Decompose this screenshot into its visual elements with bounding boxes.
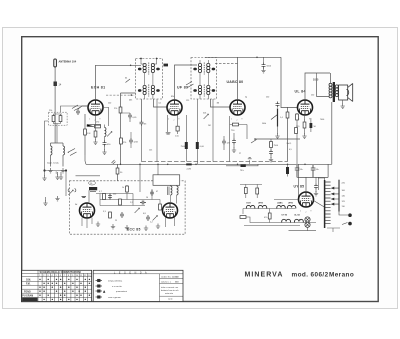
svg-text:0,5: 0,5 <box>289 149 292 151</box>
IFT2 secondary winding bottom <box>207 85 210 94</box>
svg-text:1: 1 <box>299 119 300 121</box>
IF transformer box IFT1 (dashed) <box>136 59 163 100</box>
svg-text:Merano: Merano <box>329 272 354 279</box>
ground under L1 <box>48 168 52 173</box>
ratio secondary coil <box>177 186 179 195</box>
resistor R23 <box>159 204 162 210</box>
svg-text:125: 125 <box>149 150 152 152</box>
svg-text:9: 9 <box>179 119 180 121</box>
grid leak drop <box>84 114 86 155</box>
screen wire <box>316 73 318 81</box>
svg-text:lungh. f.onda: lungh. f.onda <box>47 163 59 165</box>
screen resistor R5b <box>120 138 127 144</box>
svg-text:47: 47 <box>156 191 158 193</box>
tube ECH81 <box>88 100 103 115</box>
IFT1 core top <box>148 63 150 75</box>
FM triode b bottom wires <box>166 218 175 228</box>
rail switch contact marks <box>112 160 116 164</box>
ladder top wire <box>318 178 324 180</box>
audio drop blob <box>286 164 289 176</box>
svg-text:PU GRAM: PU GRAM <box>22 295 33 298</box>
wire to UL84 grid <box>281 57 297 107</box>
svg-text:1: 1 <box>89 119 90 121</box>
selector arrows <box>331 187 338 205</box>
bottom power wire 1 <box>244 225 300 227</box>
oscillator coil L3 <box>105 125 107 142</box>
IFT1 primary winding top <box>143 63 146 72</box>
svg-text:27: 27 <box>239 153 241 155</box>
heater filament pair 4 <box>287 205 295 208</box>
svg-text:o a cont.to: o a cont.to <box>112 285 123 288</box>
capacitor C34 <box>120 212 124 218</box>
ECH81 plate wire to IFT1 <box>96 65 142 100</box>
UL84 plate wire to OT <box>305 73 330 100</box>
output transformer secondary <box>335 85 338 97</box>
audio line y139 <box>255 138 300 140</box>
svg-text:50k: 50k <box>203 113 206 115</box>
svg-text:UY 85: UY 85 <box>282 215 288 217</box>
B plus drop from OT <box>331 102 333 164</box>
svg-text:25: 25 <box>115 220 117 222</box>
ground g4 <box>144 226 148 231</box>
FM input coupling line <box>76 175 101 177</box>
cathode line under ECH81 <box>87 124 101 126</box>
AGC drop x157 <box>156 99 158 162</box>
capacitor C32 <box>150 190 154 196</box>
antenna filter dashed box <box>48 112 67 125</box>
ground FM input <box>55 196 59 201</box>
FM trimmer T1 <box>68 190 73 195</box>
FM triode a bottom wires <box>82 218 92 229</box>
tube pin digits <box>89 119 312 215</box>
svg-text:1234: 1234 <box>134 142 138 144</box>
cap C12 <box>269 150 273 162</box>
svg-text:tutte e convert. ser: tutte e convert. ser <box>161 286 179 289</box>
UY85 plate wire <box>305 177 307 192</box>
antenna wire <box>54 67 56 143</box>
svg-text:9: 9 <box>309 119 310 121</box>
selector voltage labels <box>342 183 346 208</box>
heater filament UL84 <box>294 214 303 223</box>
band switch on grid line <box>72 105 80 111</box>
screen dashed feed <box>215 63 239 65</box>
heater end resistor <box>240 209 262 223</box>
svg-text:1,5k: 1,5k <box>175 136 179 138</box>
svg-text:tempi perfettiva: tempi perfettiva <box>108 280 123 283</box>
screen feed wire <box>166 115 171 134</box>
svg-text:UY 85: UY 85 <box>294 185 305 189</box>
cathode electrolytic C6 <box>181 115 188 162</box>
resistor R22 <box>126 186 129 192</box>
tube UL84 <box>298 100 313 115</box>
svg-text:7: 7 <box>304 120 305 122</box>
resistor R24 <box>109 212 112 218</box>
B plus riser <box>297 164 299 199</box>
FM dipole input <box>55 172 63 179</box>
svg-text:78 k: 78 k <box>240 170 244 172</box>
IFT1 trimmer blobs top <box>138 68 160 71</box>
resistor R11 <box>270 139 279 150</box>
svg-text:O.M.: O.M. <box>26 280 31 282</box>
svg-text:82k: 82k <box>171 96 174 98</box>
triode ECC85b <box>163 203 178 218</box>
svg-text:270: 270 <box>96 122 99 124</box>
svg-text:500k: 500k <box>262 123 266 125</box>
heater filament UY85 <box>282 215 291 223</box>
osc cluster wires <box>54 106 89 143</box>
triode grid cap C3 <box>76 109 80 115</box>
filter electrolytic C20 <box>295 165 304 177</box>
svg-text:ANTENNA 104: ANTENNA 104 <box>59 60 77 64</box>
legend symbols <box>96 279 106 298</box>
svg-text:3,3: 3,3 <box>103 211 106 213</box>
AGC cap C5 <box>140 120 148 162</box>
ground under L2 <box>61 168 65 173</box>
svg-text:premontarsi: premontarsi <box>116 290 128 293</box>
rail bypass cap C9 <box>261 57 272 73</box>
rail left turn up <box>85 155 86 164</box>
grid wire left <box>78 106 88 109</box>
bottom power wire 2 <box>289 230 317 232</box>
FM box tiny labels <box>75 187 158 224</box>
heater row1 labels <box>247 202 294 205</box>
det load resistor R8 <box>230 116 247 162</box>
svg-text:UABC: UABC <box>277 202 283 205</box>
svg-text:220: 220 <box>113 194 116 196</box>
ground g3 <box>125 225 129 230</box>
svg-text:4,7: 4,7 <box>99 191 102 193</box>
svg-text:0,1: 0,1 <box>159 103 162 105</box>
svg-text:1k: 1k <box>122 187 124 189</box>
mains plug pins <box>339 212 352 226</box>
grid resistor R1 <box>84 129 91 135</box>
ratio block wires <box>171 185 177 203</box>
IFT2 trimmer blobs bottom <box>193 89 215 92</box>
svg-text:1,2: 1,2 <box>150 222 153 224</box>
drop to FM box left <box>117 164 119 181</box>
ground left <box>42 121 48 180</box>
svg-text:batterie funz.te sch: batterie funz.te sch <box>161 289 179 292</box>
triode ECC85a <box>80 203 95 218</box>
drawing frame border <box>22 37 379 302</box>
switching table <box>22 270 92 301</box>
svg-text:mod. 606/2: mod. 606/2 <box>292 272 329 279</box>
box top entry wires <box>89 164 158 202</box>
band switch between IF boxes <box>186 82 194 88</box>
smoothing cap C24 <box>314 177 319 196</box>
svg-text:UABC 80: UABC 80 <box>227 80 244 84</box>
svg-text:27k: 27k <box>123 142 126 144</box>
switch text small <box>126 79 131 83</box>
AGC dashed line <box>142 161 288 163</box>
tube UABC80 <box>230 100 245 115</box>
tube UY85 <box>299 192 314 207</box>
svg-text:9: 9 <box>311 211 312 213</box>
FM box wire h3 <box>100 205 145 207</box>
speaker LS <box>339 83 353 101</box>
IF transformer box IFT2 (dashed) <box>191 58 217 100</box>
IFT1 secondary winding bottom <box>151 85 154 94</box>
AGC dot <box>131 94 133 96</box>
IFT1 output wires <box>142 99 168 120</box>
scattered value labels <box>96 95 324 156</box>
svg-text:volume c s: volume c s <box>161 282 171 284</box>
UY85 cathode wire left <box>274 199 298 201</box>
series resistors left <box>240 184 262 198</box>
svg-text:6,8: 6,8 <box>143 213 146 215</box>
UABC80 plate wire <box>237 57 239 100</box>
svg-text:7: 7 <box>306 212 307 214</box>
ground under speaker <box>341 100 345 108</box>
ground far left <box>43 197 47 205</box>
dial lamp 1 <box>305 217 310 222</box>
FM core hatch <box>90 191 96 193</box>
trimmer T2 <box>135 208 140 213</box>
FM ground bar <box>82 197 87 198</box>
svg-text:ECC 85: ECC 85 <box>127 228 141 232</box>
svg-text:1M: 1M <box>217 103 220 105</box>
box edge coil marks <box>68 189 76 193</box>
ground g5 <box>156 224 160 229</box>
selector bar <box>338 180 340 212</box>
AGC dashed into grid <box>106 94 136 96</box>
screen resistor R5a <box>114 107 122 113</box>
osc feed wire <box>103 108 109 127</box>
ladder bottom wire <box>327 228 340 232</box>
svg-text:2M: 2M <box>208 125 211 127</box>
svg-text:7000: 7000 <box>320 119 324 121</box>
decoupling electrolytic C7 <box>196 99 205 164</box>
main rail solid <box>86 163 332 165</box>
svg-text:L E G E N D A: L E G E N D A <box>114 271 148 274</box>
osc cluster resistor R3 <box>59 116 62 122</box>
IFT2 core bottom <box>203 85 205 97</box>
cathode resistor R13 <box>296 115 307 138</box>
ground g2 <box>111 224 115 229</box>
capacitor C30 <box>108 194 112 200</box>
FM input wire <box>45 171 67 197</box>
AM oscillator coil L2 <box>51 143 65 167</box>
osc padder cap C2 <box>102 141 111 155</box>
osc trimmer <box>107 132 112 137</box>
svg-text:22k: 22k <box>49 110 52 112</box>
svg-text:Fd: Fd <box>75 204 77 206</box>
T1 primary feed wires <box>317 73 331 96</box>
output transformer T1 primary <box>329 83 332 98</box>
svg-text:FONO: FONO <box>24 291 31 293</box>
grid leak resistor blob 2,2M <box>186 163 192 170</box>
IFT2 primary winding top <box>198 63 201 72</box>
cathode electrolytic C13 <box>310 118 317 132</box>
tube UF89 <box>167 100 182 115</box>
IFT2 secondary winding top <box>207 63 210 72</box>
svg-text:7: 7 <box>237 120 238 122</box>
antenna series capacitor C1 <box>54 82 62 87</box>
svg-text:2,2: 2,2 <box>130 202 133 204</box>
cathode stack under ECH81 <box>93 115 97 144</box>
FM coil L10 circle label <box>89 181 96 185</box>
osc cluster resistor R2 <box>49 110 55 122</box>
IFT2 primary winding bottom <box>198 85 201 94</box>
FM box dashed <box>69 181 185 234</box>
ground above rail <box>248 158 252 165</box>
svg-text:MINERVA: MINERVA <box>245 272 284 279</box>
filter electrolytic C21 <box>311 165 320 177</box>
svg-text:1015: 1015 <box>313 79 319 82</box>
IFT2 output wire to detector <box>211 99 231 107</box>
detector cap C8 <box>222 136 231 150</box>
dial lamp 2 <box>305 222 310 227</box>
svg-text:ECH 81: ECH 81 <box>91 86 105 90</box>
det cap C11 <box>232 133 236 152</box>
wave band switch S1 <box>68 149 77 156</box>
drop wire x287 <box>287 107 289 162</box>
IFT2 core top <box>203 63 205 75</box>
ratio transformer block <box>153 175 180 186</box>
IFT1 terminal dots <box>140 58 157 60</box>
B plus line to rectifier <box>297 164 328 177</box>
svg-text:SCHEMA DELLE COMMUTAZIONI: SCHEMA DELLE COMMUTAZIONI <box>40 270 82 274</box>
resistor R20 <box>103 194 106 200</box>
svg-text:250: 250 <box>266 97 269 99</box>
heater step resistor <box>264 209 271 223</box>
svg-text:F.M.: F.M. <box>26 283 31 285</box>
svg-text:5p: 5p <box>245 97 247 99</box>
svg-text:7: 7 <box>95 120 96 122</box>
volume pot P1 <box>271 109 284 139</box>
svg-text:7: 7 <box>174 120 175 122</box>
AM antenna coil L1 <box>51 143 53 167</box>
svg-text:1: 1 <box>168 119 169 121</box>
IFT1 trimmer blobs bottom <box>138 89 160 92</box>
heater filament pair 2 <box>258 205 266 208</box>
heater chain row2 wire <box>262 222 316 224</box>
heater chain row1 wire <box>243 208 295 210</box>
padder cap C2b <box>129 132 138 148</box>
IFT2 trimmer blobs top <box>193 68 215 71</box>
ground g1 <box>96 222 100 227</box>
svg-text:125: 125 <box>186 100 189 102</box>
svg-text:UL 84: UL 84 <box>295 90 306 94</box>
svg-text:10: 10 <box>146 197 148 199</box>
capacitor C31 <box>140 201 146 205</box>
svg-text:1: 1 <box>300 211 301 213</box>
svg-text:2,2M: 2,2M <box>187 169 192 171</box>
svg-text:9: 9 <box>242 119 243 121</box>
resistor R14 on drop <box>116 168 119 174</box>
cathode resistor R6 <box>175 115 179 138</box>
pentode screen drop x121 <box>121 93 136 164</box>
svg-text:1: 1 <box>231 119 232 121</box>
trimmer T3 <box>153 216 158 221</box>
plate stopper blob <box>164 64 169 67</box>
svg-text:resa a genom: resa a genom <box>108 296 121 299</box>
AGC resistor R10 <box>226 164 258 172</box>
svg-text:9: 9 <box>100 119 101 121</box>
rail junction dot <box>256 57 258 59</box>
grid leak R12 <box>295 113 299 164</box>
lamp drop wire <box>307 227 309 230</box>
svg-text:vedere fns. taln: vedere fns. taln <box>161 276 176 279</box>
svg-text:250: 250 <box>311 95 314 97</box>
junction dots on rail <box>120 164 306 166</box>
svg-text:ECH: ECH <box>247 203 252 205</box>
svg-text:UL 84: UL 84 <box>294 214 300 217</box>
FM box wire h1 <box>96 193 133 195</box>
heater filament pair 1 <box>246 205 254 208</box>
antenna symbol <box>54 59 57 67</box>
IFT1 primary winding bottom <box>143 85 146 94</box>
FM box verticals <box>100 185 160 206</box>
IFT1 inner wires <box>141 59 157 100</box>
UY85 to ladder diagonal <box>314 201 325 208</box>
output transformer core bar <box>333 82 335 102</box>
B+ rail top <box>205 56 281 58</box>
svg-text:1 M: 1 M <box>87 133 91 135</box>
FM box wire h2 <box>100 199 160 201</box>
svg-text:UF 89: UF 89 <box>177 86 188 90</box>
voltage selector ladder <box>325 180 331 228</box>
resistor on drop <box>286 112 289 118</box>
ratio primary coil <box>167 186 172 195</box>
capacitor C33 <box>146 215 150 221</box>
detector filter R7 <box>203 99 213 162</box>
resistor R21 <box>119 199 122 205</box>
UF89 plate wire to IFT2 <box>175 65 198 100</box>
screen cap C4 <box>121 113 138 122</box>
svg-text:note-site: note-site <box>165 292 174 295</box>
IFT1 core bottom <box>148 85 150 97</box>
svg-text:220: 220 <box>108 103 111 105</box>
audio junction <box>254 138 256 140</box>
FM input junction dot <box>65 169 67 171</box>
IFT1 secondary winding top <box>151 63 154 72</box>
svg-text:465: 465 <box>129 100 132 102</box>
heater filament pair 3 <box>277 205 285 208</box>
cathode resistor R4 <box>87 125 101 128</box>
IFT2 inner wires <box>200 60 208 99</box>
switch ps <box>251 140 257 144</box>
svg-text:27k: 27k <box>114 108 117 110</box>
volume pot cap C10 <box>276 102 280 108</box>
FM coil core bar <box>89 187 97 190</box>
